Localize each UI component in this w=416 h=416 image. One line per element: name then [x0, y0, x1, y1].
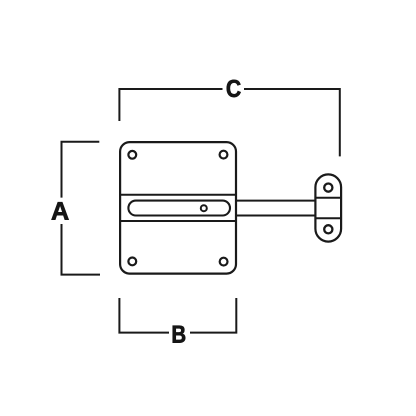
plate screw hole bottom-right: [220, 258, 228, 266]
slide channel bottom edge: [121, 220, 235, 222]
strike bracket lower cross line: [315, 217, 341, 219]
strike bracket: [315, 174, 341, 241]
latch arm top edge: [236, 200, 316, 202]
label A: [52, 202, 69, 220]
mounting plate: [120, 142, 236, 274]
plate screw hole top-left: [128, 151, 136, 159]
plate screw hole top-right: [220, 151, 228, 159]
dimension line A: [62, 142, 101, 275]
strike bracket upper hole: [324, 184, 332, 192]
slot: [128, 201, 230, 216]
latch arm bottom edge: [236, 215, 316, 217]
slot pin: [201, 205, 207, 211]
strike bracket upper cross line: [315, 197, 341, 199]
dimension line C: [119, 89, 339, 156]
plate screw hole bottom-left: [128, 258, 136, 266]
dimension line B: [119, 298, 236, 333]
label C: [227, 80, 241, 97]
strike bracket lower hole: [324, 225, 332, 233]
label B: [173, 326, 185, 343]
slide channel top edge: [121, 194, 235, 196]
